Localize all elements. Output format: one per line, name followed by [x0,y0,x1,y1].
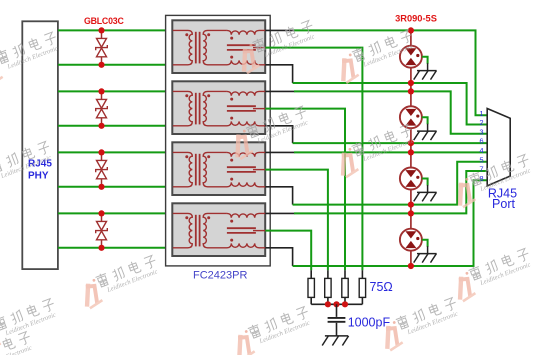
wire net T1+ to pin1 [294,30,487,115]
TVS diode D3 GBLC03C [96,149,108,190]
svg-text:4: 4 [479,146,483,155]
wire T4 center tap [265,231,311,271]
wire PHY pair 1 bottom [58,64,173,66]
junction GDT chain [408,202,414,208]
transformer T4 core [195,215,197,247]
transformer T2 body [172,81,265,134]
transformer T2 choke bottom winding [227,121,265,125]
svg-text:5: 5 [479,155,483,164]
transformer T3 choke bottom winding [227,182,265,186]
GDT tube GD1 3R090-5S [400,46,422,68]
wire resistor bus [311,303,362,305]
transformer T1 secondary winding [203,30,227,64]
svg-text:Port: Port [492,197,515,211]
wire net T1- to pin2 [293,83,488,125]
transformer T3 body [172,142,265,195]
transformer T1 choke bottom winding [227,60,265,64]
wire T2 top stub [265,90,294,92]
svg-text:3: 3 [479,127,483,136]
svg-text:1000pF: 1000pF [348,316,391,330]
junction GDT chain [408,27,414,33]
transformer T2 center tap lead [253,108,265,110]
transformer T4 secondary winding [203,213,227,247]
wire T1 bottom stub [265,65,292,83]
wire PHY pair 1 top [58,29,173,31]
junction GDT chain [408,210,414,216]
GDT tube GD4 3R090-5S [400,229,422,251]
wire PHY pair 4 bottom [58,247,173,249]
transformer T4 choke core [227,227,256,229]
svg-text:FC2423PR: FC2423PR [193,269,247,281]
ground GDT GD2 [414,131,437,140]
TVS diode D2 GBLC03C [96,88,108,129]
junction GDT chain [408,88,414,94]
transformer T3 secondary winding [203,152,227,186]
junction GDT chain [408,140,414,146]
TVS diode D1 GBLC03C [96,27,108,68]
wire PHY pair 4 top [58,212,173,214]
wire T3 bottom stub [265,187,292,205]
transformer T2 core [195,93,197,125]
ground capacitor [322,336,348,346]
junction GDT chain [408,263,414,269]
transformer T2 choke top winding [227,91,265,95]
wire net T4+ to pin7 [294,171,487,213]
wire PHY pair 2 bottom [58,125,173,127]
resistor R1 75ohm [308,270,314,304]
wire net T4- to pin8 [293,180,488,266]
transformer T1 choke core [227,44,256,46]
junction GDT chain [408,149,414,155]
transformer T1 body [172,20,265,73]
transformer T4 choke bottom winding [227,243,265,247]
wire T2 center tap [265,109,345,271]
transformer T2 choke core [227,105,256,107]
svg-text:2: 2 [479,118,483,127]
IC U1 RJ45 PHY box [22,21,58,269]
svg-text:3R090-5S: 3R090-5S [395,13,437,23]
wire GDT GD3 ground stem [422,179,428,186]
capacitor C1 1000pF [328,304,346,336]
transformer module T1 outer box FC2423PR [166,15,271,266]
transformer T3 choke top winding [227,152,265,156]
wire net T3+ to pin4 [294,151,487,153]
ground GDT GD4 [414,254,437,263]
transformer T4 choke top winding [227,213,265,217]
resistor R3 75ohm [342,270,348,304]
transformer T4 primary winding [173,213,193,247]
wire T4 bottom stub [265,248,292,266]
transformer T3 choke core [227,166,256,168]
junction resistor bus [333,301,339,307]
svg-text:GBLC03C: GBLC03C [84,16,125,26]
junction resistor bus [342,301,348,307]
wire GDT GD4 ground stem [422,240,428,247]
wire T1 top stub [265,29,294,31]
junction resistor bus [325,301,331,307]
GDT tube GD2 3R090-5S [400,106,422,128]
TVS diode D4 GBLC03C [96,210,108,251]
svg-text:7: 7 [479,165,483,174]
transformer T3 core [195,154,197,186]
connector J1 RJ45 Port body [487,109,510,186]
net GDT chain [410,30,412,266]
ground GDT GD1 [414,71,437,80]
wire T3 top stub [265,151,294,153]
resistor R2 75ohm [325,270,331,304]
transformer T1 center tap lead [253,47,265,49]
transformer T2 primary winding [173,91,193,125]
wire T3 center tap [265,170,328,271]
transformer T3 primary winding [173,152,193,186]
wire net T2- to pin6 [293,142,488,144]
transformer T1 primary winding [173,30,193,64]
wire T2 bottom stub [265,126,292,143]
wire net T2+ to pin3 [294,91,487,133]
wire net T3- to pin5 [293,162,488,205]
svg-text:6: 6 [479,137,483,146]
GDT tube GD3 3R090-5S [400,168,422,190]
junction GDT chain [408,80,414,86]
wire PHY pair 2 top [58,90,173,92]
transformer T4 center tap lead [253,230,265,232]
wire PHY pair 3 top [58,151,173,153]
svg-text:75Ω: 75Ω [370,280,393,294]
wire T4 top stub [265,212,294,214]
wire GDT GD1 ground stem [422,57,428,64]
ground GDT GD3 [414,192,437,201]
svg-text:PHY: PHY [28,171,49,182]
resistor R4 75ohm [359,270,365,304]
wire PHY pair 3 bottom [58,186,173,188]
wire GDT GD2 ground stem [422,117,428,124]
transformer T2 secondary winding [203,91,227,125]
transformer T1 core [195,32,197,64]
transformer T3 center tap lead [253,169,265,171]
wire T1 center tap [265,48,362,271]
svg-text:1: 1 [479,109,483,118]
transformer T1 choke top winding [227,30,265,34]
transformer T4 body [172,203,265,256]
